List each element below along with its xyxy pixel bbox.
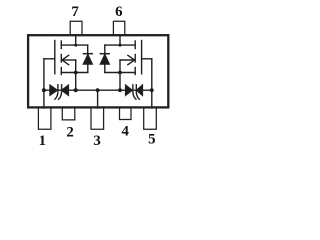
Q2 body lead with arrow: [120, 59, 135, 61]
ESD zener Z3 cathode bar with tail: [133, 85, 136, 99]
ESD zener Z3 triangle (right pair, points right): [126, 85, 133, 95]
wire pin6 to drain node: [119, 35, 121, 45]
transistor Q2 gate bar: [141, 41, 143, 74]
ESD zener Z1 cathode bar with tail: [55, 85, 58, 99]
pin 2 lead: [62, 108, 75, 120]
wire pin7 to drain node: [75, 35, 77, 45]
ESD zener Z2 triangle (points left): [62, 85, 69, 95]
ESD zener Z2 cathode bar with tail: [59, 85, 62, 99]
wire gate Q1 down to pin 1: [43, 59, 45, 108]
wire rail down to pin 3: [97, 90, 99, 108]
Q1 source lead wire: [61, 72, 88, 74]
node dot Q1 body-source: [74, 71, 78, 75]
node dot rail Q2 drop: [118, 88, 122, 92]
svg-text:6: 6: [115, 4, 122, 20]
svg-text:5: 5: [148, 132, 155, 148]
svg-text:3: 3: [93, 133, 100, 149]
Q2 gate lead wire: [142, 58, 152, 60]
transistor Q1 gate bar: [54, 41, 56, 74]
body diode D1 anode wire: [87, 64, 89, 73]
body diode D2 cathode bar: [100, 53, 109, 55]
body diode D1 cathode wire: [87, 45, 89, 53]
pin 4 lead: [120, 108, 132, 120]
pin 3 lead: [91, 108, 104, 129]
node dot rail right end: [150, 88, 154, 92]
Q1 body lead with arrow: [62, 59, 76, 61]
node dot rail Q1 drop: [74, 88, 78, 92]
svg-text:2: 2: [66, 125, 73, 141]
node dot rail left end: [42, 88, 46, 92]
body diode D1 triangle: [83, 55, 92, 64]
ESD zener Z4 cathode bar with tail: [136, 85, 139, 99]
body diode D1 cathode bar: [83, 53, 92, 55]
svg-text:1: 1: [39, 133, 46, 149]
node dot Q2 body-source: [118, 71, 122, 75]
node dot rail pin3: [96, 88, 100, 92]
node dot pin7/drain: [74, 44, 77, 47]
wire body/source Q2 down to rail: [119, 60, 121, 90]
body diode D2 cathode wire: [104, 45, 106, 53]
wire gate Q2 down to pin 5: [151, 59, 153, 108]
pin 6 lead: [113, 21, 124, 34]
ESD zener Z1 triangle (left pair, points right): [50, 85, 57, 95]
Q1 gate lead wire: [44, 58, 55, 60]
pin 7 lead: [70, 21, 82, 34]
pin 5 lead: [144, 108, 157, 129]
ESD zener Z4 triangle (points left): [137, 85, 143, 95]
bottom rail wire: [44, 89, 152, 91]
svg-text:7: 7: [71, 4, 79, 20]
Q1 drain lead wire: [61, 44, 87, 46]
pin 1 lead: [38, 108, 51, 129]
Q2 drain lead wire: [105, 44, 135, 46]
node dot pin6/drain: [119, 44, 122, 47]
package outline: [28, 35, 168, 107]
transistor Q2 channel dashes: [134, 41, 136, 49]
wire body/source Q1 down to rail: [75, 60, 77, 90]
body diode D2 anode wire: [104, 64, 106, 73]
svg-text:4: 4: [121, 123, 129, 139]
body diode D2 triangle: [100, 55, 109, 64]
transistor Q1 channel dashes: [60, 41, 62, 49]
Q2 source lead wire: [105, 72, 135, 74]
